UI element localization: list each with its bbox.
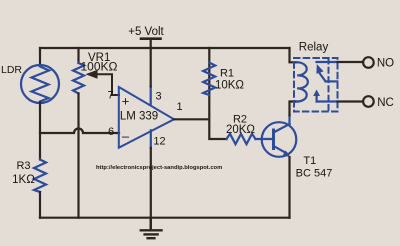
svg-text:+5 Volt: +5 Volt <box>128 26 164 38</box>
transistor Q1 BC547 <box>262 115 297 157</box>
potentiometer VR1 <box>73 63 84 94</box>
svg-text:R1: R1 <box>220 68 234 80</box>
wire pin12 down (blue part) <box>150 130 152 148</box>
svg-text:LDR: LDR <box>1 64 22 76</box>
wire VR1 bottom to ground rail <box>77 94 79 218</box>
wire LDR bottom to node A <box>39 103 41 160</box>
svg-text:LM 339: LM 339 <box>120 111 158 123</box>
wire pin3 to +5V rail (blue part) <box>150 87 152 105</box>
wire node A to op-amp pin6 (hop over VR1 line) <box>40 129 119 134</box>
wire ground rail <box>40 217 290 219</box>
svg-text:100KΩ: 100KΩ <box>81 60 118 74</box>
svg-text:http://electronicsproject-sand: http://electronicsproject-sandip.blogspo… <box>96 165 222 171</box>
wire NO lead <box>338 61 364 63</box>
relay dashed enclosure <box>294 58 338 112</box>
resistor R3 <box>34 160 46 193</box>
svg-text:NO: NO <box>377 58 394 70</box>
resistor R2 <box>227 134 256 144</box>
VR1 wiper arrow <box>86 70 120 95</box>
wire NC lead <box>338 100 364 102</box>
svg-text:–: – <box>122 129 130 144</box>
resistor R1 <box>203 63 215 95</box>
svg-text:T1: T1 <box>303 155 316 167</box>
wire collector to relay coil <box>290 48 298 115</box>
wire pin3 to +5V rail (dark part) <box>150 48 152 87</box>
wire top +5V rail <box>40 47 290 49</box>
relay internal dashed link <box>328 59 330 112</box>
svg-text:1: 1 <box>176 101 182 113</box>
svg-text:NC: NC <box>377 97 394 109</box>
relay NC contact arm <box>313 90 337 102</box>
wire LDR top stub <box>39 48 41 66</box>
relay NO contact arm <box>316 62 337 81</box>
svg-text:3: 3 <box>155 91 161 103</box>
svg-text:6: 6 <box>108 126 114 138</box>
wire R2 to base <box>256 138 273 140</box>
svg-text:1KΩ: 1KΩ <box>12 174 35 186</box>
wire pin12 to ground (dark part) <box>150 148 152 230</box>
terminal NO <box>363 57 374 68</box>
svg-text:Relay: Relay <box>299 42 329 54</box>
svg-text:7: 7 <box>107 89 113 101</box>
svg-text:R3: R3 <box>16 160 30 172</box>
wire R3 bottom <box>39 192 41 218</box>
relay coil <box>297 62 308 101</box>
svg-text:BC 547: BC 547 <box>296 168 333 180</box>
+5V supply bar <box>141 37 161 40</box>
svg-text:+: + <box>122 94 130 109</box>
ground <box>141 218 162 239</box>
wire op-amp output node <box>174 48 227 139</box>
svg-text:20KΩ: 20KΩ <box>226 124 255 136</box>
terminal NC <box>363 96 374 107</box>
wire VR1 top stub <box>77 48 79 63</box>
svg-text:12: 12 <box>153 136 165 148</box>
wire emitter to ground rail <box>288 157 290 218</box>
wire +5V stem <box>150 39 152 48</box>
svg-text:10KΩ: 10KΩ <box>215 80 244 92</box>
op-amp U1 LM339 <box>119 87 174 148</box>
LDR photoresistor <box>21 65 59 103</box>
